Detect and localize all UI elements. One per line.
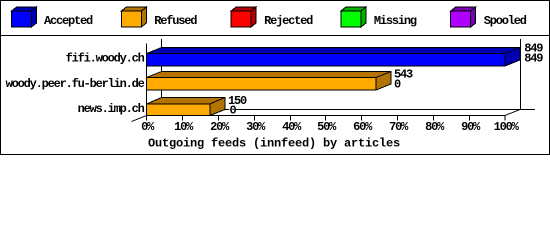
svg-text:60%: 60% (353, 120, 373, 134)
svg-text:Outgoing feeds (innfeed) by ar: Outgoing feeds (innfeed) by articles (148, 137, 400, 151)
svg-text:20%: 20% (210, 120, 230, 134)
svg-text:woody.peer.fu-berlin.de: woody.peer.fu-berlin.de (6, 77, 145, 91)
svg-text:fifi.woody.ch: fifi.woody.ch (66, 52, 145, 66)
svg-text:Refused: Refused (154, 14, 197, 28)
svg-text:Rejected: Rejected (264, 14, 313, 28)
svg-text:Spooled: Spooled (484, 14, 527, 28)
svg-text:10%: 10% (174, 120, 194, 134)
svg-text:0: 0 (394, 78, 401, 92)
svg-text:100%: 100% (494, 120, 520, 134)
svg-text:0: 0 (230, 104, 237, 118)
svg-text:Missing: Missing (374, 14, 417, 28)
svg-text:news.imp.ch: news.imp.ch (78, 102, 145, 116)
svg-text:70%: 70% (389, 120, 409, 134)
svg-text:30%: 30% (246, 120, 266, 134)
svg-text:80%: 80% (425, 120, 445, 134)
svg-text:849: 849 (524, 52, 543, 66)
svg-text:40%: 40% (282, 120, 302, 134)
svg-text:0%: 0% (141, 120, 155, 134)
svg-text:90%: 90% (461, 120, 481, 134)
svg-text:50%: 50% (317, 120, 337, 134)
svg-text:Accepted: Accepted (44, 14, 93, 28)
